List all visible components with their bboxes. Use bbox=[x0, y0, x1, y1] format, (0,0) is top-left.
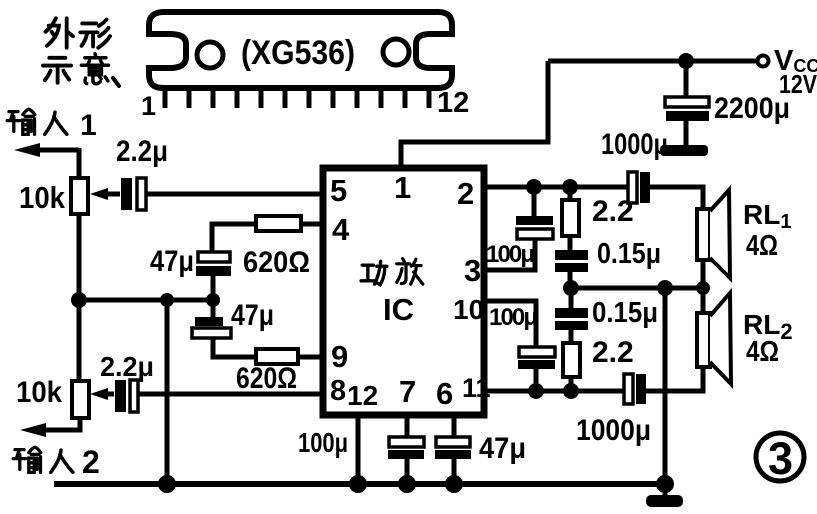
ground bus wire y300 bbox=[79, 298, 213, 303]
svg-text:47μ: 47μ bbox=[231, 299, 274, 332]
wire C2 to pin 8 bbox=[138, 392, 322, 397]
wire C8 to RL1 bbox=[650, 187, 703, 211]
Vcc terminal bbox=[758, 56, 769, 67]
wire pin 10 to C10 bbox=[484, 301, 536, 348]
wire C9 to R6 bbox=[569, 330, 574, 343]
capacitor C4 47u plates bbox=[192, 317, 231, 338]
svg-text:8: 8 bbox=[330, 375, 346, 407]
wire pin 7 to C12 bbox=[405, 415, 410, 438]
wire node E to C6 bbox=[532, 187, 537, 217]
ground rail junction C12 bbox=[398, 475, 416, 493]
svg-text:1: 1 bbox=[141, 91, 156, 121]
U1 label 功放 bbox=[361, 259, 423, 285]
ground rail junction node I bbox=[656, 475, 674, 493]
svg-text:11: 11 bbox=[462, 373, 491, 403]
wire C13 to ground rail bbox=[452, 459, 457, 484]
label 输入1 bbox=[7, 109, 96, 142]
svg-text:6: 6 bbox=[436, 376, 453, 411]
capacitor C12 47u plates bbox=[388, 437, 424, 459]
resistor R6 2.2 bbox=[563, 343, 580, 377]
wire RL1 bottom to node H bbox=[701, 261, 706, 288]
capacitor C5 2200u plates bbox=[665, 97, 709, 121]
svg-text:2.2: 2.2 bbox=[592, 336, 634, 369]
svg-text:(XG536): (XG536) bbox=[241, 34, 355, 72]
resistor R5 2.2 bbox=[562, 200, 579, 236]
capacitor C11 1000u plates bbox=[624, 374, 646, 404]
wire C10 to node J bbox=[534, 369, 539, 391]
svg-text:0.15μ: 0.15μ bbox=[592, 297, 658, 329]
wire node D to C5 bbox=[684, 61, 689, 97]
ground rail junction C13 bbox=[445, 475, 463, 493]
svg-text:100μ: 100μ bbox=[489, 304, 538, 331]
svg-text:1000μ: 1000μ bbox=[601, 128, 668, 161]
wire R4 to pin 9 bbox=[298, 355, 322, 360]
wire C3 to node C bbox=[211, 276, 216, 300]
capacitor C7 0.15u plates bbox=[555, 250, 588, 272]
svg-text:3: 3 bbox=[768, 433, 793, 484]
figure number 3 circled bbox=[756, 433, 804, 484]
svg-text:9: 9 bbox=[331, 339, 348, 374]
wire R2 bottom to input 2 bbox=[36, 418, 80, 430]
svg-text:3: 3 bbox=[464, 253, 481, 288]
capacitor C10 100u plates bbox=[518, 347, 555, 369]
package hole left bbox=[197, 42, 223, 68]
wire node C to C4 bbox=[211, 300, 216, 318]
label 外形 bbox=[46, 18, 110, 47]
node D junction on Vcc rail bbox=[678, 53, 694, 69]
resistor R4 620ohm bbox=[256, 349, 298, 364]
wire R5 to C7 bbox=[568, 236, 573, 251]
Vcc rail wire bbox=[548, 59, 758, 64]
wire C5 to ground bbox=[684, 121, 689, 147]
node C junction bbox=[206, 293, 220, 307]
package hole right bbox=[383, 39, 409, 65]
IC package outline XG536 bbox=[149, 12, 452, 88]
capacitor C9 0.15u plates bbox=[555, 308, 588, 330]
speaker RL2 bbox=[697, 293, 731, 384]
svg-text:100μ: 100μ bbox=[486, 241, 535, 268]
speaker RL1 bbox=[697, 190, 730, 278]
capacitor C3 47u plates bbox=[196, 252, 231, 276]
svg-text:1: 1 bbox=[80, 109, 97, 142]
mid rail wire y288 bbox=[570, 286, 703, 291]
capacitor C13 47u plates bbox=[435, 437, 471, 459]
wire input1 corner to pot R1 top bbox=[77, 148, 82, 178]
svg-text:47μ: 47μ bbox=[150, 245, 194, 278]
svg-text:2: 2 bbox=[82, 444, 100, 480]
capacitor C8 1000u plates bbox=[628, 172, 650, 203]
wire C6 to pin 3 bbox=[484, 239, 535, 270]
wire node G to C9 bbox=[569, 288, 574, 309]
svg-text:100μ: 100μ bbox=[298, 427, 348, 458]
wire R6 to node K bbox=[569, 377, 574, 391]
svg-text:2: 2 bbox=[457, 176, 474, 211]
ground symbol bottom bbox=[646, 495, 683, 507]
svg-text:10k: 10k bbox=[16, 376, 62, 409]
R2 wiper arrow bbox=[90, 388, 114, 400]
wire pin 11 rail y391 bbox=[484, 389, 624, 394]
input 2 arrow bbox=[20, 423, 46, 437]
svg-text:0.15μ: 0.15μ bbox=[597, 238, 661, 270]
wire pin4 620ohm branch bbox=[212, 224, 322, 253]
svg-text:47μ: 47μ bbox=[479, 432, 526, 465]
wire pin 12 to ground rail bbox=[356, 415, 361, 484]
package pins 1-12 bbox=[165, 88, 429, 108]
wire node A down to pot R2 top bbox=[77, 300, 82, 381]
node G junction bbox=[563, 280, 579, 296]
svg-text:2.2μ: 2.2μ bbox=[100, 351, 154, 382]
node I junction bbox=[657, 280, 673, 296]
capacitor C1 2.2u plates bbox=[121, 178, 146, 210]
svg-text:620Ω: 620Ω bbox=[236, 362, 297, 395]
potentiometer R1 10k bbox=[71, 178, 88, 214]
wire node H to RL2 top bbox=[701, 288, 706, 313]
svg-text:7: 7 bbox=[399, 374, 416, 409]
wire pin 2 rail bbox=[484, 185, 628, 190]
wire pin 6 to C13 bbox=[452, 415, 457, 438]
wire node I to ground symbol bbox=[663, 484, 668, 497]
label 示意 bbox=[43, 54, 119, 86]
svg-text:IC: IC bbox=[383, 292, 414, 327]
wire pin 1 to Vcc rail bbox=[401, 61, 548, 168]
node H junction bbox=[696, 281, 710, 295]
svg-text:5: 5 bbox=[330, 173, 347, 208]
svg-text:620Ω: 620Ω bbox=[243, 246, 310, 279]
svg-text:12: 12 bbox=[437, 87, 469, 119]
ground rail wire bbox=[54, 481, 665, 487]
node K junction bbox=[563, 383, 579, 399]
node J junction bbox=[528, 383, 544, 399]
wire C4 to 620ohm R4 bbox=[213, 338, 256, 357]
capacitor C6 100u plates bbox=[516, 216, 553, 239]
wire C1 to pin 5 bbox=[146, 192, 322, 197]
svg-text:2.2μ: 2.2μ bbox=[116, 135, 168, 168]
wire node F to R5 bbox=[568, 187, 573, 200]
node B junction bbox=[160, 293, 174, 307]
wire C12 to ground rail bbox=[405, 459, 410, 484]
svg-text:2200μ: 2200μ bbox=[714, 92, 790, 125]
wire node B down to ground rail bbox=[165, 300, 170, 484]
svg-text:4Ω: 4Ω bbox=[746, 336, 779, 368]
input 1 arrow bbox=[14, 143, 79, 157]
wire R1 bottom to bus node A bbox=[77, 214, 82, 302]
svg-text:10k: 10k bbox=[19, 180, 66, 215]
ground rail junction at node B bbox=[158, 475, 176, 493]
svg-text:12: 12 bbox=[347, 380, 378, 411]
resistor R3 620ohm bbox=[256, 216, 301, 231]
svg-text:1000μ: 1000μ bbox=[576, 414, 651, 447]
op-amp U1 IC box bbox=[323, 168, 484, 415]
wire C11 to RL2 bottom bbox=[646, 367, 703, 391]
node F junction bbox=[562, 179, 578, 195]
svg-text:4: 4 bbox=[332, 212, 350, 247]
wire C7 to node G bbox=[568, 272, 573, 288]
wire node I down to ground rail bbox=[663, 288, 668, 484]
ground rail junction pin12 bbox=[349, 475, 367, 493]
svg-text:1: 1 bbox=[394, 170, 411, 205]
R1 wiper arrow bbox=[90, 188, 120, 200]
ground symbol top bbox=[660, 145, 708, 156]
svg-text:4Ω: 4Ω bbox=[746, 230, 778, 262]
potentiometer R2 10k bbox=[72, 381, 89, 418]
capacitor C2 2.2u plates bbox=[115, 380, 138, 412]
svg-text:10: 10 bbox=[453, 294, 484, 325]
node A junction bbox=[71, 292, 87, 308]
node E junction bbox=[526, 179, 542, 195]
label 输入2 bbox=[13, 444, 100, 480]
